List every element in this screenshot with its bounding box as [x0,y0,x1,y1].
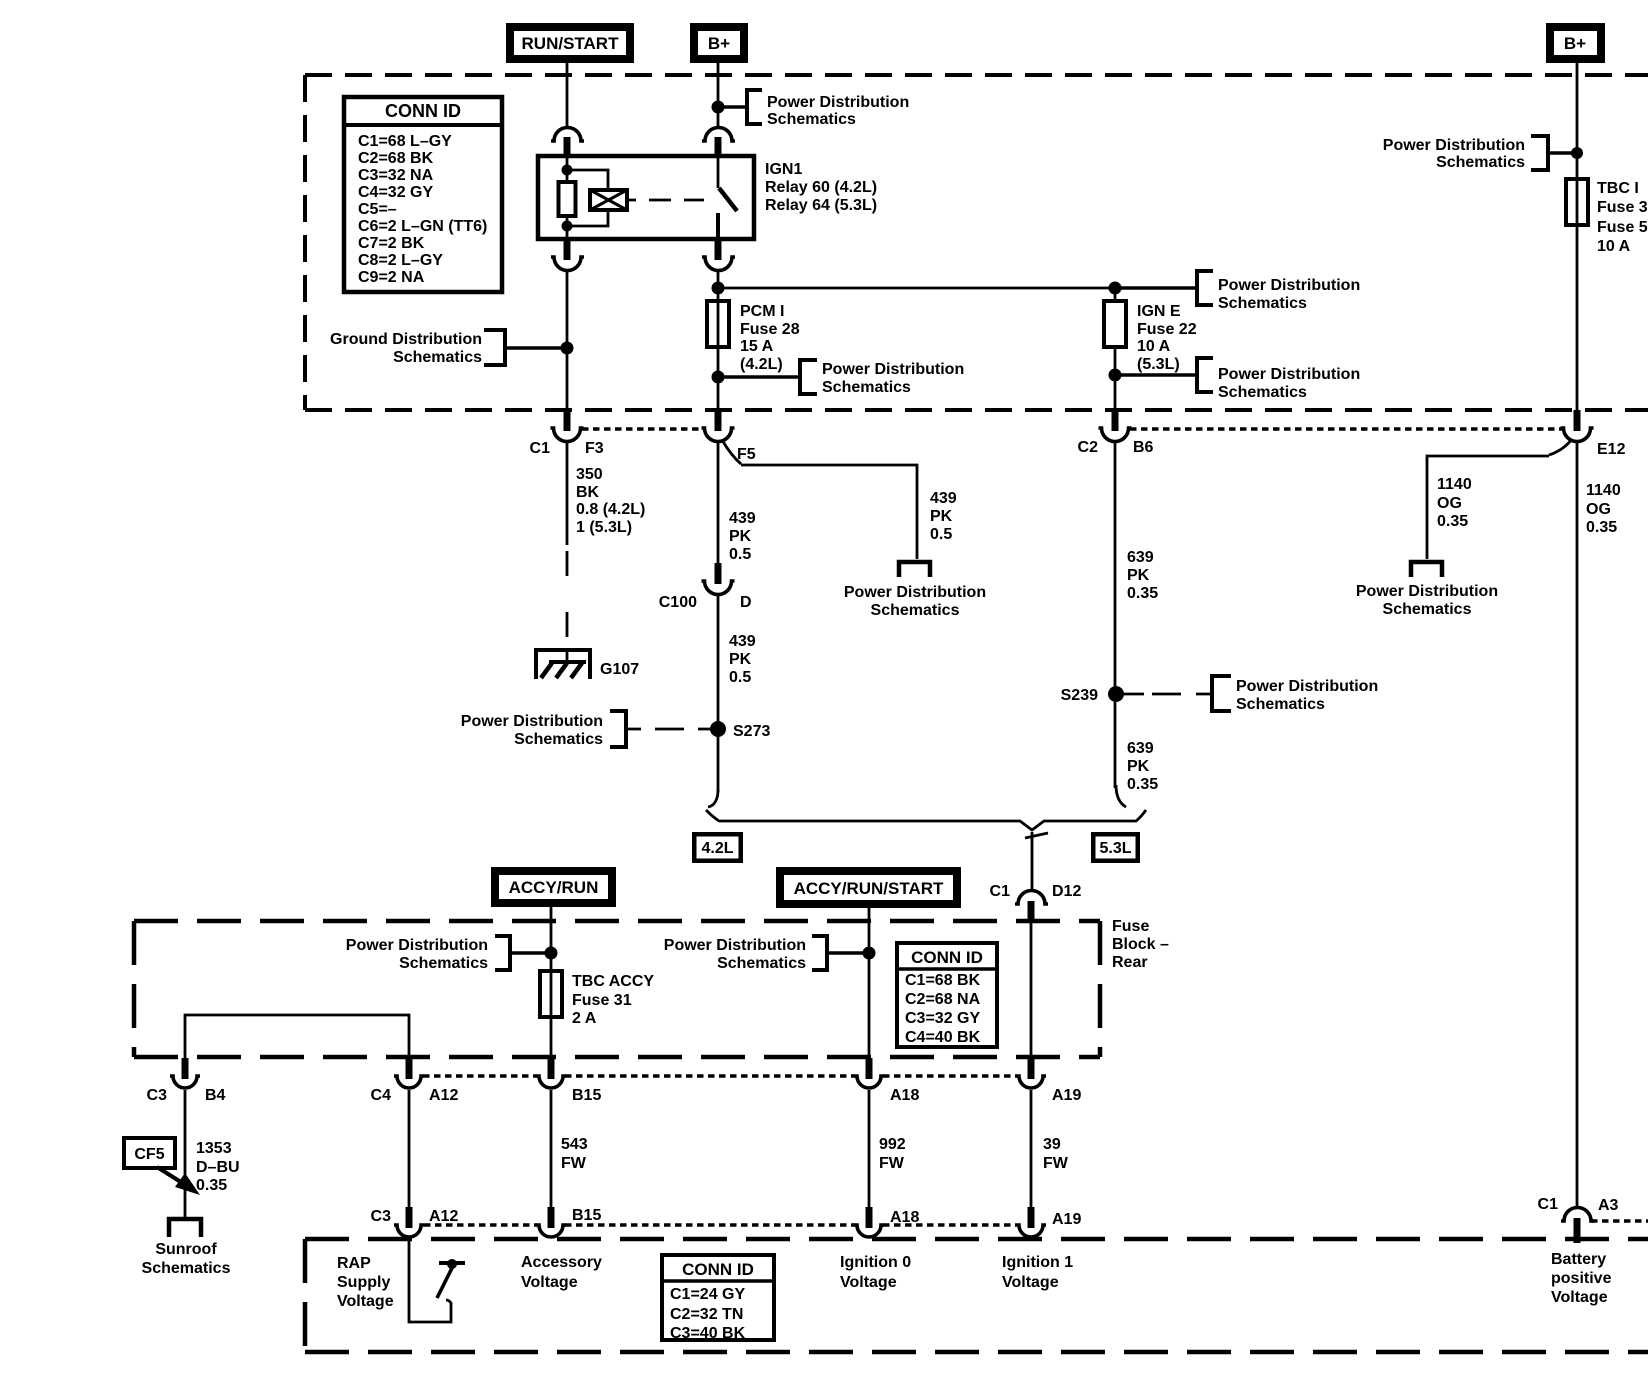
svg-text:PK: PK [729,528,752,545]
fuse TBC ACCY Fuse 31 [540,971,654,1027]
svg-text:S239: S239 [1061,687,1098,704]
svg-text:Power Distribution: Power Distribution [461,713,603,730]
svg-text:Fuse: Fuse [1112,918,1149,935]
svg-text:B+: B+ [708,34,730,53]
svg-text:B+: B+ [1564,34,1586,53]
wire label 439 PK 0.5 (lower) [729,633,756,686]
wire B4 down to sunroof [184,1090,187,1217]
svg-text:0.35: 0.35 [1127,585,1158,602]
splice S239 [1061,686,1124,704]
svg-text:1140: 1140 [1586,482,1621,499]
svg-text:RUN/START: RUN/START [522,34,620,53]
wire to bracket (TBC) [1548,151,1577,154]
svg-text:S273: S273 [733,723,770,740]
svg-text:Power Distribution: Power Distribution [1383,137,1525,154]
power feed box B+ (left) [690,23,748,63]
connector A18 (bottom) [854,1207,919,1237]
svg-text:C3=32 GY: C3=32 GY [905,1010,980,1027]
svg-text:Schematics: Schematics [1236,696,1325,713]
svg-text:Schematics: Schematics [393,349,482,366]
svg-text:(4.2L): (4.2L) [740,356,783,373]
wire label 439 PK 0.5 (upper) [729,510,756,563]
svg-text:Schematics: Schematics [717,955,806,972]
svg-text:Fuse 31: Fuse 31 [572,992,632,1009]
relay label [765,161,877,214]
power feed box ACCY/RUN/START [776,867,961,908]
svg-text:A18: A18 [890,1087,919,1104]
wire D12 to A19 [1030,923,1033,1059]
node below PCM fuse [712,371,725,384]
suppressor X box [590,190,627,210]
svg-text:D: D [740,594,752,611]
svg-text:C1: C1 [1538,1196,1559,1213]
svg-text:C4=40 BK: C4=40 BK [905,1029,981,1046]
bracket Power Distribution Schematics (below PCM) [800,360,964,396]
svg-text:Rear: Rear [1112,954,1148,971]
wire to bracket (A18) [829,951,869,954]
CONN ID table (bottom) [662,1255,774,1342]
svg-text:0.35: 0.35 [1437,513,1468,530]
svg-text:C1: C1 [530,440,551,457]
connector pin (RUN/START into relay) [551,128,584,158]
svg-text:639: 639 [1127,740,1154,757]
bracket Ground Distribution Schematics [330,330,505,366]
relay coil resistor [559,182,576,216]
svg-text:4.2L: 4.2L [701,840,733,857]
wire B15 down [550,1090,553,1207]
svg-text:Schematics: Schematics [767,111,856,128]
svg-text:PK: PK [1127,567,1150,584]
connector C2 B6 [1078,410,1154,456]
wire E12 left branch [1427,439,1572,559]
svg-text:CONN ID: CONN ID [385,101,461,121]
goalpost Power Distribution Schematics (F5 branch) [844,562,986,619]
wire B+ to relay [717,63,720,128]
svg-text:D–BU: D–BU [196,1159,240,1176]
svg-text:0.5: 0.5 [729,546,751,563]
svg-text:Power Distribution: Power Distribution [1218,277,1360,294]
power feed box ACCY/RUN [491,867,616,907]
node junction on B+ wire [712,101,725,114]
wire label 639 PK 0.35 (upper) [1127,549,1158,602]
bracket Power Distribution Schematics (ACCY/RUN) [346,936,510,972]
svg-text:CF5: CF5 [134,1146,164,1163]
wire IGN E fuse to C2/B6 [1114,347,1117,411]
svg-text:E12: E12 [1597,441,1626,458]
wire relay to PCM fuse [717,270,720,411]
wire E12 down to C1/A3 [1576,441,1579,1207]
svg-text:10 A: 10 A [1597,238,1631,255]
connector B15 (mid) [536,1058,601,1104]
node ground distribution junction [561,342,574,355]
svg-text:C5=–: C5=– [358,201,397,218]
bridge wire B4 to A12 [185,1015,409,1059]
connector C4 A12 [371,1058,459,1104]
svg-text:Power Distribution: Power Distribution [664,937,806,954]
svg-text:PK: PK [1127,758,1150,775]
svg-text:C1: C1 [990,883,1011,900]
svg-text:(5.3L): (5.3L) [1137,356,1180,373]
dashed box: rear fuse block [134,921,1100,1057]
svg-text:IGN1: IGN1 [765,161,802,178]
dotted connector line (bottom row) [424,1223,1016,1227]
svg-text:992: 992 [879,1136,906,1153]
wire A18 down [868,1090,871,1207]
power feed box RUN/START [506,23,634,63]
wire to bracket right of IGN E top [1115,286,1197,289]
svg-text:C1=68 L–GY: C1=68 L–GY [358,133,452,150]
connector C100 D [659,563,752,611]
wire label 350 BK [576,466,645,536]
svg-text:439: 439 [930,490,957,507]
label Accessory Voltage [521,1254,602,1291]
svg-text:PCM I: PCM I [740,303,784,320]
svg-text:Relay 60 (4.2L): Relay 60 (4.2L) [765,179,877,196]
connector C1 D12 [990,883,1082,923]
node ACCY branch [545,947,558,960]
svg-text:C1=68 BK: C1=68 BK [905,972,981,989]
svg-text:Schematics: Schematics [1383,601,1472,618]
connector A19 (bottom) [1016,1207,1081,1237]
svg-text:0.5: 0.5 [930,526,952,543]
wire to power distribution bracket [718,105,747,108]
wire B6 to splice S239 [1114,441,1117,788]
svg-text:ACCY/RUN/START: ACCY/RUN/START [794,879,944,898]
svg-text:D12: D12 [1052,883,1081,900]
svg-text:2 A: 2 A [572,1010,597,1027]
connector B15 (bottom) [536,1207,601,1237]
svg-text:FW: FW [561,1155,587,1172]
relay switch [718,157,737,239]
svg-text:OG: OG [1586,501,1611,518]
svg-text:CONN ID: CONN ID [911,948,983,967]
node TBC branch [1571,147,1583,159]
dashed wire to S239 bracket [1124,693,1210,696]
connector C1 F3 [530,410,604,457]
svg-text:C2=32 TN: C2=32 TN [670,1306,743,1323]
ground G107 [534,650,639,679]
svg-text:PK: PK [930,508,953,525]
wire to bracket (ACCY) [510,951,551,954]
coil suppressor branch wires [567,170,608,226]
svg-text:Battery: Battery [1551,1251,1606,1268]
wire label 639 PK 0.35 (lower) [1127,740,1158,793]
merge bus 4.2L/5.3L [706,785,1146,891]
svg-text:Voltage: Voltage [337,1293,394,1310]
relay bottom-left pin [551,239,584,271]
bracket Power Distribution Schematics (TBC) [1383,136,1548,171]
svg-text:C6=2 L–GN (TT6): C6=2 L–GN (TT6) [358,218,487,235]
svg-text:1140: 1140 [1437,476,1472,493]
svg-text:A19: A19 [1052,1211,1081,1228]
RAP switch [409,1239,465,1322]
bracket Power Distribution Schematics (IGN E top) [1197,271,1360,312]
wire label 39 FW [1043,1136,1069,1172]
svg-text:Relay 64 (5.3L): Relay 64 (5.3L) [765,197,877,214]
dashed wire to S273 bracket [628,728,712,731]
wire B+ right to TBC fuse [1576,63,1579,411]
svg-text:Fuse 22: Fuse 22 [1137,321,1197,338]
svg-text:Power Distribution: Power Distribution [346,937,488,954]
svg-text:Accessory: Accessory [521,1254,602,1271]
connector C3 B4 [147,1058,226,1104]
fuse PCM I Fuse 28 [707,301,800,373]
svg-text:Block –: Block – [1112,936,1169,953]
svg-text:Schematics: Schematics [399,955,488,972]
svg-text:Ground Distribution: Ground Distribution [330,331,482,348]
connector E12 [1561,410,1626,458]
label Ignition 1 Voltage [1002,1254,1073,1291]
svg-text:C4: C4 [371,1087,392,1104]
wire relay to C1/F3 [566,270,569,411]
connector pin (B+ into relay) [702,128,735,158]
node PCM/IGNE branch [712,282,725,295]
svg-text:FW: FW [879,1155,905,1172]
svg-text:Power Distribution: Power Distribution [767,94,909,111]
svg-text:ACCY/RUN: ACCY/RUN [509,878,599,897]
wire A19 down [1030,1090,1033,1207]
svg-text:A12: A12 [429,1208,458,1225]
svg-text:B6: B6 [1133,439,1154,456]
svg-text:543: 543 [561,1136,588,1153]
label Ignition 0 Voltage [840,1254,911,1291]
svg-text:0.8 (4.2L): 0.8 (4.2L) [576,501,645,518]
wire label 992 FW [879,1136,906,1172]
relay bottom-right pin [702,239,735,271]
wire label 1140 OG 0.35 (right) [1586,482,1621,536]
svg-text:439: 439 [729,633,756,650]
callout box CF5 [124,1138,200,1195]
dashed box: instrument cluster (bottom) [305,1239,1648,1352]
bracket Power Distribution Schematics (S239) [1212,676,1378,713]
svg-text:C3=32 NA: C3=32 NA [358,167,434,184]
svg-text:OG: OG [1437,495,1462,512]
svg-text:439: 439 [729,510,756,527]
bracket Power Distribution Schematics (S273) [461,711,626,748]
svg-text:0.35: 0.35 [196,1177,227,1194]
wire label 1140 OG 0.35 (left) [1437,476,1472,530]
svg-text:C2: C2 [1078,439,1099,456]
wire label 439 PK 0.5 (branch) [930,490,957,543]
dashed box: underhood fuse block [305,75,1648,410]
svg-text:C8=2 L–GY: C8=2 L–GY [358,252,443,269]
svg-text:C7=2 BK: C7=2 BK [358,235,425,252]
CONN ID table (rear fuse block) [897,943,997,1047]
svg-text:F5: F5 [737,446,756,463]
svg-text:C3: C3 [147,1087,168,1104]
label Battery positive Voltage [1551,1251,1612,1306]
svg-text:Schematics: Schematics [142,1260,231,1277]
svg-text:Fuse 58: Fuse 58 [1597,219,1648,236]
svg-text:C3: C3 [371,1208,392,1225]
wire to bracket below PCM [718,375,800,378]
goalpost Sunroof Schematics [142,1219,231,1277]
svg-text:15 A: 15 A [740,338,774,355]
svg-text:Schematics: Schematics [1218,384,1307,401]
label Fuse Block Rear [1112,918,1169,971]
svg-text:Fuse 33: Fuse 33 [1597,199,1648,216]
svg-text:C9=2 NA: C9=2 NA [358,269,425,286]
svg-text:TBC ACCY: TBC ACCY [572,973,654,990]
node A18 branch [863,947,876,960]
svg-text:positive: positive [1551,1270,1612,1287]
fuse IGN E Fuse 22 [1104,301,1197,373]
connector A19 (mid) [1016,1058,1081,1104]
svg-text:TBC I: TBC I [1597,180,1639,197]
fuse TBC IGN Fuse [1566,179,1648,255]
svg-text:B4: B4 [205,1087,226,1104]
wire branch to IGN E fuse [718,288,1115,301]
svg-text:C100: C100 [659,594,697,611]
CONN ID table (underhood) [344,97,502,292]
dotted connector line C2/B6 to E12 [1130,427,1563,431]
svg-text:Schematics: Schematics [514,731,603,748]
svg-text:Power Distribution: Power Distribution [844,584,986,601]
svg-text:Ignition 0: Ignition 0 [840,1254,911,1271]
svg-text:A3: A3 [1598,1197,1619,1214]
relay coil wire [562,157,573,239]
svg-text:0.35: 0.35 [1127,776,1158,793]
svg-text:Supply: Supply [337,1274,390,1291]
svg-text:C3=40 BK: C3=40 BK [670,1325,746,1342]
svg-text:0.35: 0.35 [1586,519,1617,536]
svg-text:Schematics: Schematics [1218,295,1307,312]
svg-text:A19: A19 [1052,1087,1081,1104]
svg-text:350: 350 [576,466,603,483]
wire C1 to ground (solid then dashed) [566,441,569,637]
svg-text:5.3L: 5.3L [1099,840,1131,857]
wire to ground distribution bracket [505,346,567,349]
splice S273 [710,721,770,740]
svg-text:PK: PK [729,651,752,668]
wire A12 down [408,1090,411,1207]
dotted connector line (mid row) [423,1074,1017,1078]
relay control dashed line [627,199,704,202]
svg-text:G107: G107 [600,661,639,678]
svg-text:C2=68 NA: C2=68 NA [905,991,981,1008]
svg-text:B15: B15 [572,1087,601,1104]
svg-text:10 A: 10 A [1137,338,1171,355]
wire C100 to splice S273 [717,594,720,792]
bracket Power Distribution Schematics (IGN E bottom) [1197,358,1360,401]
wire ACCY/RUN to fuse 31 [550,907,553,1059]
svg-text:Power Distribution: Power Distribution [1236,678,1378,695]
wire RUN/START to relay [566,63,569,128]
wire label 1353 D-BU 0.35 [196,1140,240,1194]
svg-text:Fuse 28: Fuse 28 [740,321,800,338]
svg-text:Voltage: Voltage [521,1274,578,1291]
svg-text:Voltage: Voltage [1002,1274,1059,1291]
connector C3 A12 (bottom) [371,1207,459,1237]
bracket Power Distribution Schematics (ACCY/RUN/START) [664,936,827,972]
svg-text:Power Distribution: Power Distribution [1356,583,1498,600]
node below IGN E fuse [1109,369,1122,382]
svg-text:0.5: 0.5 [729,669,751,686]
svg-text:RAP: RAP [337,1255,371,1272]
wire ACCY/RUN/START to A18 [868,907,871,1059]
svg-text:CONN ID: CONN ID [682,1260,754,1279]
svg-text:Sunroof: Sunroof [155,1241,217,1258]
svg-text:Power Distribution: Power Distribution [822,361,964,378]
dotted connector line C1/F3 to F5 [582,427,704,431]
svg-text:Voltage: Voltage [1551,1289,1608,1306]
connector A18 (mid) [854,1058,919,1104]
power feed box B+ (right) [1546,23,1605,63]
svg-text:BK: BK [576,484,600,501]
svg-text:1 (5.3L): 1 (5.3L) [576,519,632,536]
svg-text:C2=68 BK: C2=68 BK [358,150,434,167]
svg-text:Voltage: Voltage [840,1274,897,1291]
svg-text:A12: A12 [429,1087,458,1104]
engine box 5.3L [1091,832,1140,863]
wire F5 down [717,441,720,563]
connector F5 [702,410,756,463]
svg-text:Schematics: Schematics [822,379,911,396]
relay IGN1 box [538,156,754,239]
engine box 4.2L [692,832,743,863]
svg-text:B15: B15 [572,1207,601,1224]
wire to bracket below IGN E [1115,373,1197,376]
svg-text:Power Distribution: Power Distribution [1218,366,1360,383]
svg-text:639: 639 [1127,549,1154,566]
svg-text:1353: 1353 [196,1140,232,1157]
svg-text:IGN E: IGN E [1137,303,1181,320]
svg-text:Ignition 1: Ignition 1 [1002,1254,1073,1271]
bracket Power Distribution Schematics (top B+) [747,90,909,128]
wire F5 right branch [722,440,917,559]
label RAP Supply Voltage [337,1255,394,1310]
svg-text:39: 39 [1043,1136,1061,1153]
svg-text:C1=24 GY: C1=24 GY [670,1286,745,1303]
goalpost Power Distribution Schematics (E12 branch) [1356,562,1498,618]
svg-text:F3: F3 [585,440,604,457]
svg-text:Schematics: Schematics [1436,154,1525,171]
svg-text:FW: FW [1043,1155,1069,1172]
connector C1 A3 [1538,1196,1648,1243]
wire label 543 FW [561,1136,588,1172]
svg-text:C4=32 GY: C4=32 GY [358,184,433,201]
svg-text:Schematics: Schematics [871,602,960,619]
